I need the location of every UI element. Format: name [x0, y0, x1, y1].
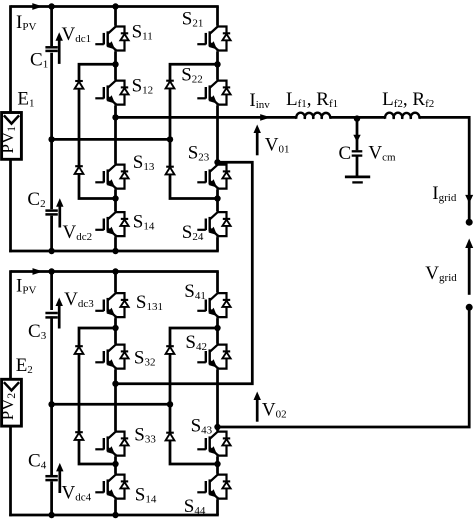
- svg-text:S44: S44: [184, 496, 206, 517]
- svg-text:Lf1, Rf1: Lf1, Rf1: [286, 89, 338, 110]
- transistor S33: [108, 430, 116, 439]
- node neutral / cap chain module 1: [48, 136, 54, 142]
- wire clamp chain2 module 1: [170, 64, 218, 198]
- node bottom rail / leg1 module 1: [112, 248, 118, 254]
- wire left PV loop upper module 1: [9, 5, 12, 112]
- svg-text:Vdc3: Vdc3: [64, 289, 94, 310]
- svg-text:S22: S22: [181, 65, 203, 86]
- wire leg1' seg c: [114, 370, 117, 431]
- svg-text:Lf2, Rf2: Lf2, Rf2: [382, 89, 434, 110]
- diode D31: [75, 345, 83, 347]
- node neutral / cap chain module 2: [48, 401, 54, 407]
- arrow V02: [256, 399, 259, 422]
- capacitor C1: [45, 46, 57, 49]
- transistor S31 (labelled S131): [108, 292, 116, 301]
- node A2 output junction: [112, 381, 118, 387]
- node bottom rail / leg1 module 2: [112, 512, 118, 518]
- wire leg1 seg b: [114, 52, 117, 80]
- svg-text:V01: V01: [265, 134, 290, 155]
- transistor S41: [210, 292, 218, 301]
- wire leg1' seg e: [114, 500, 117, 515]
- node S13-S14 junction: [112, 195, 118, 201]
- wire leg2' seg b: [216, 318, 219, 343]
- node bottom rail / cap chain module 1: [48, 248, 54, 254]
- node S11-S12 junction: [112, 61, 118, 67]
- node B1 output junction: [214, 159, 220, 165]
- node top rail / leg1 module 1: [112, 3, 118, 9]
- wire filter mid: [330, 116, 385, 119]
- wire leg2 seg c: [216, 106, 219, 164]
- transistor S23: [210, 163, 218, 172]
- wire series link B1 to A2: [116, 162, 253, 383]
- svg-text:S13: S13: [133, 152, 155, 173]
- node S21-S22 junction: [214, 61, 220, 67]
- svg-text:Vcm: Vcm: [368, 142, 396, 163]
- svg-text:S23: S23: [188, 143, 210, 164]
- wire leg2' seg a: [216, 272, 219, 293]
- arrow Ipv module 1: [32, 3, 43, 10]
- wire DC-link cap chain upper module 1: [50, 7, 53, 47]
- capacitor C4: [45, 475, 57, 478]
- arrow Vdc3: [58, 305, 61, 329]
- node grid terminal bottom: [466, 304, 473, 311]
- arrow Vdc2: [58, 205, 61, 227]
- wire clamp chain1 module 1: [79, 64, 116, 198]
- PV panel PV1: [2, 113, 22, 160]
- arrow on cap branch: [353, 135, 360, 143]
- transistor S11: [108, 25, 116, 33]
- transistor S34 (labelled S14): [108, 473, 116, 482]
- wire DC-link cap chain upper module 2: [50, 272, 53, 311]
- svg-text:Iinv: Iinv: [249, 90, 270, 111]
- wire leg1 seg d: [114, 190, 117, 211]
- svg-text:IPV: IPV: [16, 12, 36, 33]
- wire leg1 seg a: [114, 7, 117, 26]
- svg-text:Vdc2: Vdc2: [63, 222, 93, 243]
- wire leg2 seg b: [216, 52, 219, 80]
- arrow Vgrid: [468, 247, 471, 295]
- svg-text:C3: C3: [28, 321, 47, 342]
- capacitor C3: [45, 312, 57, 315]
- wire leg1' seg d: [114, 457, 117, 474]
- wire clamp chain1 module 2: [79, 328, 116, 464]
- svg-text:S24: S24: [182, 222, 204, 243]
- wire top DC rail module 2: [11, 270, 219, 273]
- wire leg1 seg c: [114, 106, 117, 164]
- wire left PV loop upper module 2: [9, 270, 12, 379]
- diode D41: [166, 345, 174, 347]
- wire DC-link cap chain lower module 1: [50, 216, 53, 251]
- inductor Lf1: [296, 113, 330, 119]
- transistor S32: [108, 343, 116, 352]
- node S43-S44 junction: [214, 461, 220, 467]
- node B2 output junction: [214, 424, 220, 430]
- svg-text:S12: S12: [132, 75, 154, 96]
- svg-text:E1: E1: [17, 88, 34, 109]
- transistor S12: [108, 79, 116, 88]
- wire neutral module 1: [52, 138, 170, 141]
- wire left PV loop lower module 1: [9, 159, 12, 252]
- arrow Iinv: [260, 114, 271, 121]
- svg-text:S43: S43: [191, 415, 213, 436]
- svg-text:Vdc1: Vdc1: [62, 24, 92, 45]
- wire clamp chain2 module 2: [170, 328, 218, 464]
- transistor S22: [210, 79, 218, 88]
- wire DC-link cap chain middle module 2: [50, 316, 53, 475]
- arrow Igrid: [465, 195, 473, 204]
- svg-text:S21: S21: [182, 9, 204, 30]
- svg-text:IPV: IPV: [16, 275, 36, 296]
- wire leg2' seg e: [216, 500, 219, 515]
- svg-text:S14: S14: [135, 484, 157, 505]
- svg-text:V02: V02: [262, 399, 287, 420]
- node S31-S32 junction: [112, 325, 118, 331]
- wire leg1' seg b: [114, 318, 117, 343]
- transistor S13: [108, 163, 116, 172]
- wire DC-link cap chain lower module 2: [50, 481, 53, 515]
- diode D12: [75, 165, 83, 167]
- diode D22: [166, 166, 174, 168]
- wire cap branch: [356, 117, 359, 150]
- diode D32: [75, 431, 83, 433]
- svg-text:C2: C2: [27, 189, 45, 210]
- node neutral / clamp chain2 module 1: [167, 136, 173, 142]
- wire leg2' seg c: [216, 370, 219, 431]
- wire cap to ground: [356, 157, 359, 176]
- wire top DC rail module 1: [11, 5, 219, 8]
- wire neutral module 2: [52, 403, 170, 406]
- svg-text:S41: S41: [184, 281, 206, 302]
- inductor Lf2: [385, 113, 419, 119]
- wire leg1' seg a: [114, 272, 117, 293]
- arrow Ipv module 2: [33, 268, 44, 275]
- svg-text:S11: S11: [132, 21, 153, 42]
- transistor S21: [210, 25, 218, 33]
- svg-text:C: C: [339, 143, 352, 164]
- svg-text:Vgrid: Vgrid: [425, 263, 457, 284]
- wire B2 output: [218, 426, 220, 429]
- node top rail / cap chain module 2: [48, 268, 54, 274]
- svg-text:Igrid: Igrid: [432, 183, 457, 204]
- svg-text:Vdc4: Vdc4: [62, 482, 92, 503]
- transistor S43: [210, 430, 218, 439]
- wire DC-link cap chain middle module 1: [50, 53, 53, 210]
- node top rail / cap chain module 1: [48, 3, 54, 9]
- svg-text:C4: C4: [28, 450, 47, 471]
- node S23-S24 junction: [214, 195, 220, 201]
- wire leg2 seg e: [216, 237, 219, 251]
- svg-text:S42: S42: [185, 332, 207, 353]
- node filter cap junction: [354, 115, 360, 121]
- transistor S14: [108, 211, 116, 220]
- ground: [345, 175, 370, 178]
- wire inverter output A1: [116, 116, 297, 119]
- node S41-S42 junction: [214, 325, 220, 331]
- wire leg2 seg a: [216, 7, 219, 26]
- diode D21: [166, 80, 174, 82]
- arrow Vdc1: [58, 39, 61, 64]
- wire leg2 seg d: [216, 190, 219, 211]
- node S33-S34 junction: [112, 461, 118, 467]
- wire left PV loop lower module 2: [9, 426, 12, 516]
- transistor S24: [210, 211, 218, 220]
- transistor S42: [210, 343, 218, 352]
- svg-text:S131: S131: [136, 292, 163, 313]
- node neutral / clamp chain2 module 2: [167, 401, 173, 407]
- svg-text:S14: S14: [133, 211, 155, 232]
- diode D11: [75, 80, 83, 82]
- wire grid return: [218, 307, 470, 427]
- svg-text:C1: C1: [30, 49, 48, 70]
- wire leg1 seg e: [114, 237, 117, 251]
- node grid terminal top: [466, 219, 473, 226]
- node bottom rail / cap chain module 2: [48, 512, 54, 518]
- arrow V01: [256, 132, 259, 156]
- svg-text:E2: E2: [16, 355, 33, 376]
- wire filter to grid corner: [419, 117, 469, 220]
- wire bottom DC rail module 2: [9, 514, 219, 517]
- diode D42: [166, 432, 174, 434]
- capacitor C filter: [352, 150, 363, 152]
- node top rail / leg1 module 2: [112, 268, 118, 274]
- svg-text:S32: S32: [134, 348, 156, 369]
- node A1 output junction: [112, 114, 118, 120]
- transistor S44: [210, 473, 218, 482]
- wire leg2' seg d: [216, 457, 219, 474]
- PV panel PV2: [2, 379, 22, 426]
- wire bottom DC rail module 1: [9, 250, 219, 253]
- arrow Vdc4: [58, 470, 61, 493]
- svg-text:S33: S33: [134, 425, 156, 446]
- capacitor C2: [45, 209, 57, 212]
